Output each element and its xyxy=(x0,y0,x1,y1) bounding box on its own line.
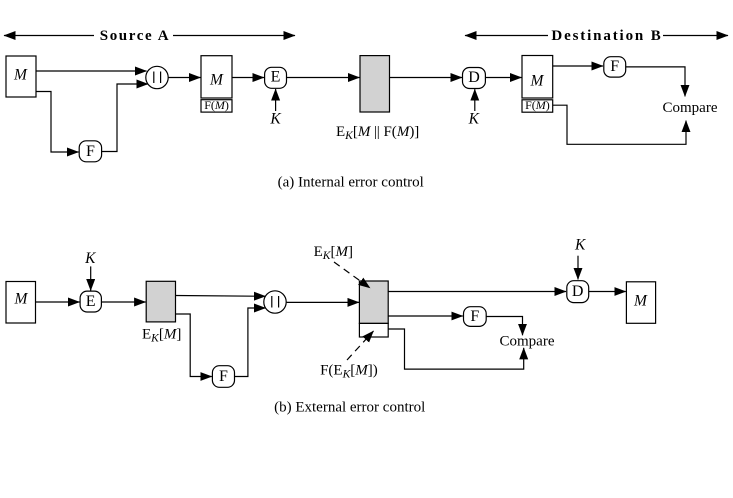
wire D to M box (a) xyxy=(485,77,521,79)
box M with F(M) destination (a) xyxy=(522,56,553,113)
svg-text:F: F xyxy=(219,368,228,385)
key K arrow into E (a) xyxy=(269,89,281,128)
concat circle (a) xyxy=(146,66,168,88)
wire M to E (a) xyxy=(232,77,264,79)
svg-text:Destination B: Destination B xyxy=(551,28,662,44)
function F lower-left (a) xyxy=(79,141,101,162)
function F destination (a) xyxy=(604,57,626,77)
decrypt D (a) xyxy=(463,68,486,89)
wire gray box 2 to D (b) xyxy=(388,291,566,293)
wire gray box 2 to F right (b) xyxy=(388,315,463,317)
wire M box to F (a dest) xyxy=(553,65,603,67)
svg-text:F: F xyxy=(470,308,479,325)
svg-text:M: M xyxy=(633,292,648,309)
box M with F(M) appended (a) xyxy=(201,56,232,112)
wire E to ciphertext box (a) xyxy=(287,77,360,79)
wire D to M (b) xyxy=(589,291,626,293)
wire M to concat top (a) xyxy=(36,70,147,72)
svg-text:F(M): F(M) xyxy=(204,98,229,112)
wire concat to gray box 2 (b) xyxy=(287,301,359,303)
wire F down to Compare (a) xyxy=(626,67,685,97)
wire gray box down to F (b) xyxy=(176,314,212,377)
svg-text:K: K xyxy=(84,250,96,267)
svg-text:(a) Internal error control: (a) Internal error control xyxy=(278,174,424,190)
svg-text:F: F xyxy=(610,58,619,75)
key K arrow into D (a) xyxy=(468,89,480,127)
ciphertext gray box left (b) xyxy=(146,281,175,322)
encrypt E (a) xyxy=(265,67,287,88)
wire F to Compare down (b) xyxy=(486,317,522,336)
svg-text:M: M xyxy=(530,72,545,89)
header Destination B span arrow xyxy=(465,28,728,44)
svg-text:F(M): F(M) xyxy=(525,98,550,112)
ciphertext gray box (a) xyxy=(360,56,390,112)
svg-text:M: M xyxy=(209,72,224,89)
wire concat to M box (a) xyxy=(169,77,201,79)
wire M down to F (a) xyxy=(36,92,79,153)
wire E to gray box (b) xyxy=(101,301,145,303)
wire F(M) box to Compare from below (a) xyxy=(553,105,686,144)
svg-text:EK[M || F(M)]: EK[M || F(M)] xyxy=(336,124,419,142)
key K arrow into E (b) xyxy=(84,250,96,291)
appended white box (b) xyxy=(359,323,388,337)
box M source (b) xyxy=(6,282,36,324)
encrypt E (b) xyxy=(80,291,101,312)
svg-text:F(EK[M]): F(EK[M]) xyxy=(320,363,378,381)
svg-text:M: M xyxy=(14,290,29,307)
transmitted gray box (b) xyxy=(359,281,388,323)
svg-text:K: K xyxy=(574,237,586,254)
wire gray box top to concat (b) xyxy=(176,295,266,298)
svg-text:K: K xyxy=(468,111,480,128)
svg-text:Compare: Compare xyxy=(500,333,555,349)
label F(EK[M]) pointer (b bottom) xyxy=(320,331,378,381)
function F lower (b) xyxy=(212,366,234,388)
wire gray box to D (a) xyxy=(390,77,463,79)
box M source (a) xyxy=(6,56,36,97)
wire M to E (b) xyxy=(36,301,80,303)
svg-text:(b) External error control: (b) External error control xyxy=(274,399,425,415)
header Source A span arrow xyxy=(4,28,295,44)
decrypt D (b) xyxy=(567,281,589,303)
svg-text:F: F xyxy=(86,143,95,160)
key K arrow into D (b) xyxy=(574,237,586,280)
wire F up to concat (a) xyxy=(102,84,148,152)
wire F up to concat (b) xyxy=(235,308,266,377)
wire white box to Compare up (b) xyxy=(388,329,524,369)
svg-text:M: M xyxy=(13,67,28,84)
svg-text:Compare: Compare xyxy=(663,100,718,116)
svg-text:Source A: Source A xyxy=(100,28,170,44)
svg-text:EK[M]: EK[M] xyxy=(142,326,181,344)
svg-text:E: E xyxy=(86,293,96,310)
svg-text:K: K xyxy=(269,111,281,128)
svg-text:D: D xyxy=(468,69,480,86)
svg-text:D: D xyxy=(572,283,584,300)
function F right (b) xyxy=(464,307,487,327)
svg-text:E: E xyxy=(271,69,281,86)
concat circle (b) xyxy=(264,291,286,313)
box M destination (b) xyxy=(626,282,655,324)
svg-text:EK[M]: EK[M] xyxy=(314,244,353,262)
label EK[M] pointer (b top) xyxy=(314,244,370,288)
